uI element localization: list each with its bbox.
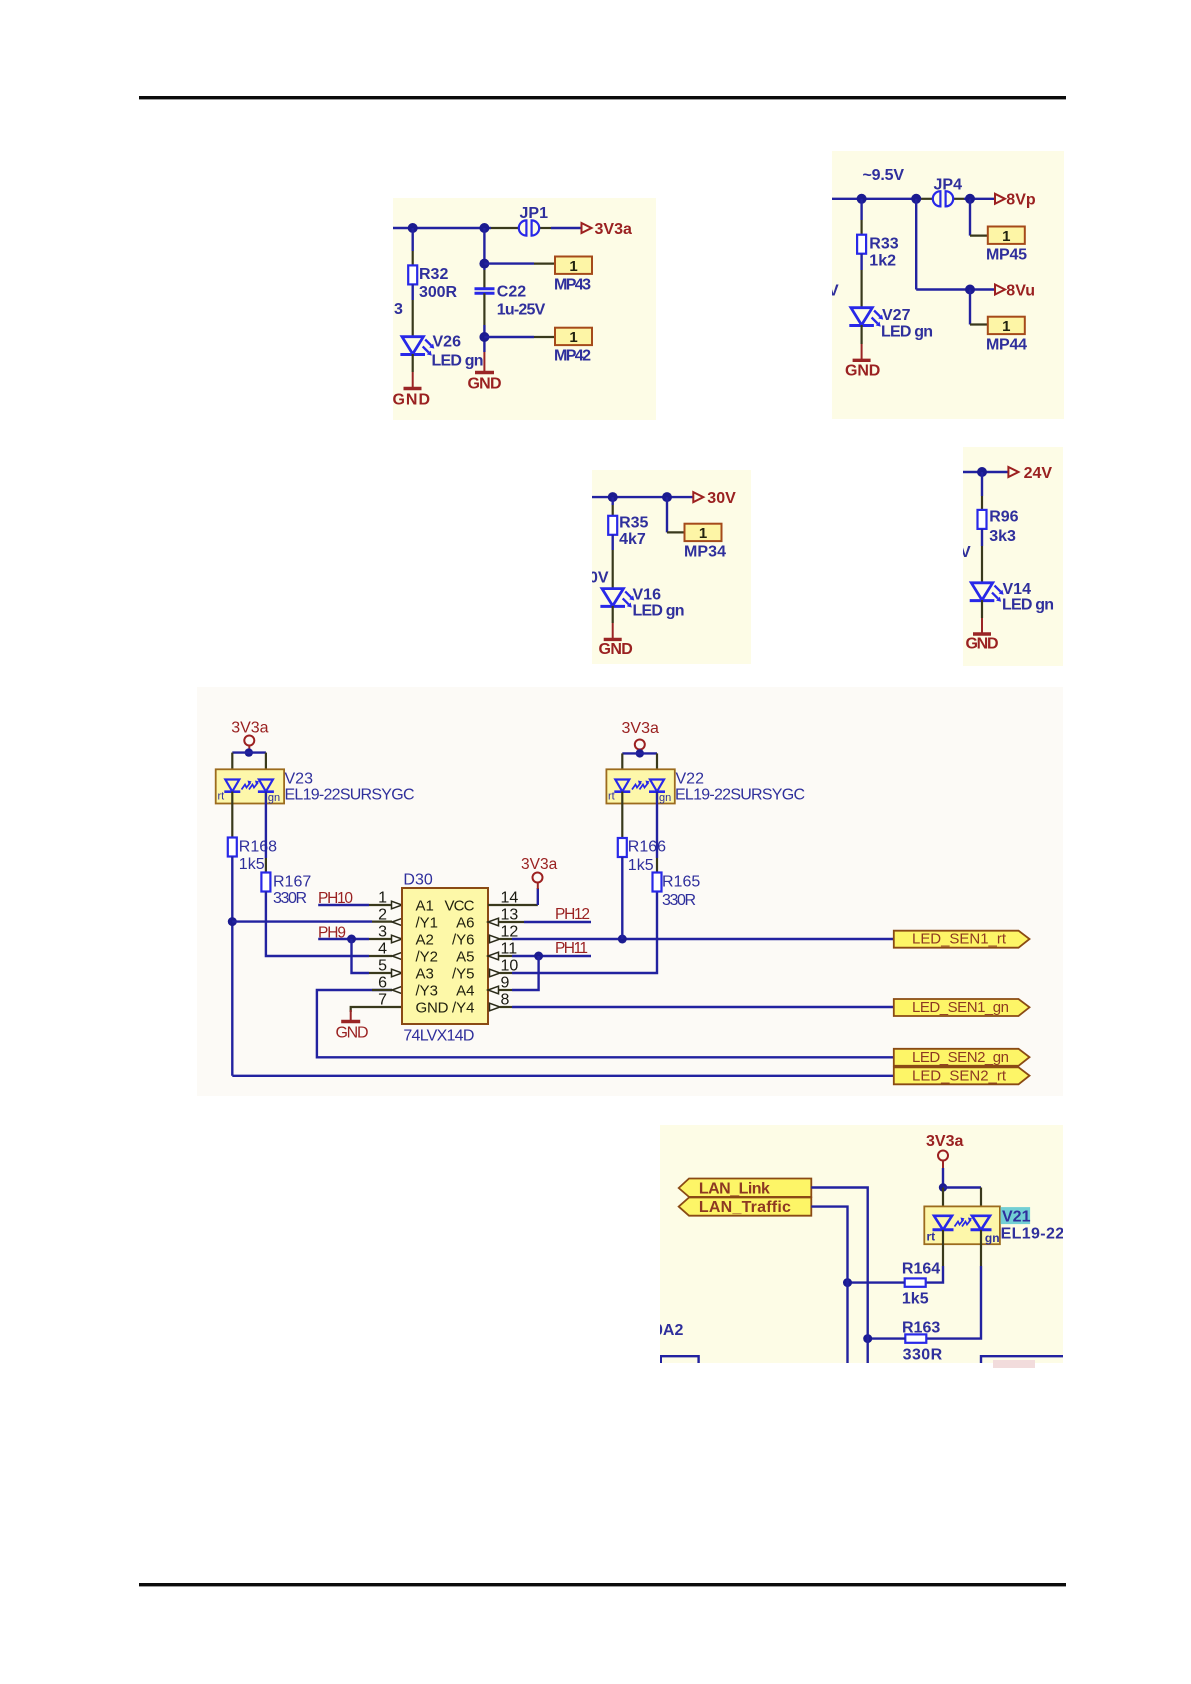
svg-text:PH12: PH12	[555, 906, 590, 923]
wire PH11 to A4	[512, 956, 539, 990]
pin stub MP44	[970, 323, 988, 325]
wire 8Vu horizontal	[916, 288, 994, 290]
svg-text:GND: GND	[336, 1025, 369, 1042]
pin stub A2	[369, 938, 391, 940]
pin arrow A5 input	[488, 952, 499, 960]
svg-text:3k3: 3k3	[989, 528, 1016, 545]
svg-text:/Y4: /Y4	[452, 1000, 475, 1017]
junction R35 top	[608, 492, 618, 502]
supply arrow 8Vp	[995, 194, 1005, 204]
pink artifact	[993, 1360, 1035, 1368]
svg-text:/Y2: /Y2	[416, 949, 439, 966]
pin stub JP4 right	[954, 198, 965, 200]
pin stub R35 top	[612, 505, 614, 516]
wire V21 gn cathode	[980, 1230, 982, 1266]
junction R33 top	[857, 194, 867, 204]
pin arrow /Y6 output	[490, 935, 501, 943]
capacitor C22	[475, 287, 495, 290]
resistor R33	[857, 235, 866, 254]
pin arrow A6 input	[488, 918, 499, 926]
wire V22 rt cathode	[621, 792, 623, 839]
svg-text:EL19-22SURSYGC: EL19-22SURSYGC	[675, 787, 805, 804]
wire R163 to LAN_Link line	[868, 1337, 906, 1339]
supply arrow 24V	[1008, 467, 1018, 477]
svg-text:R168: R168	[239, 839, 277, 856]
wire main net top (fragment A)	[393, 227, 491, 229]
svg-text:8Vp: 8Vp	[1006, 192, 1036, 209]
pin arrow /Y1 output	[392, 918, 403, 926]
svg-text:2: 2	[378, 907, 387, 924]
svg-text:R165: R165	[662, 874, 700, 891]
pin stub V14 cathode	[981, 600, 983, 618]
ground symbol V27	[853, 359, 871, 362]
svg-text:1k5: 1k5	[628, 857, 654, 874]
wire V23 gn cathode upper	[265, 792, 267, 859]
package V22 box	[606, 769, 674, 803]
svg-text:LED gn: LED gn	[432, 353, 484, 370]
svg-text:1k5: 1k5	[239, 856, 265, 873]
junction V22 supply	[636, 749, 644, 757]
supply arrow 3V3a	[582, 223, 592, 233]
pin arrow A1 input	[392, 901, 403, 909]
pin stub /Y2	[369, 955, 392, 957]
pin stub MP43	[534, 263, 555, 265]
junction V21 supply	[939, 1183, 947, 1191]
junction R166 net	[618, 935, 627, 944]
svg-text:~9.5V: ~9.5V	[863, 167, 905, 184]
wire power to junction	[942, 1168, 944, 1188]
pin stub /Y5	[500, 972, 512, 974]
supply arrow 8Vu	[995, 285, 1005, 295]
pin stub V27 anode	[860, 270, 862, 309]
svg-text:A5: A5	[456, 949, 474, 966]
svg-text:rt: rt	[608, 791, 615, 803]
svg-text:MP44: MP44	[986, 337, 1027, 354]
pin stub C22 bottom	[483, 293, 485, 325]
svg-text:30V: 30V	[707, 490, 736, 507]
net label box LAN_Link	[679, 1179, 812, 1197]
fragment E background	[197, 687, 1063, 1096]
svg-text:3: 3	[394, 301, 403, 318]
svg-text:V21: V21	[1002, 1209, 1031, 1226]
power circle 3V3a (V23)	[244, 736, 254, 746]
pin arrow /Y2 output	[392, 952, 403, 960]
pin arrow A3 input	[392, 969, 403, 977]
svg-text:GND: GND	[599, 641, 633, 658]
page top rule	[139, 96, 1066, 99]
wire junction to R96	[981, 472, 983, 496]
net label box LED_SEN1_gn	[894, 999, 1030, 1016]
junction at R32 top	[408, 223, 418, 233]
svg-text:5: 5	[378, 958, 387, 975]
svg-text:V16: V16	[633, 587, 662, 604]
pin stub V14 anode	[981, 546, 983, 584]
wire /Y4 to LED_SEN1_gn	[512, 1006, 894, 1008]
svg-text:LAN_Link: LAN_Link	[699, 1180, 770, 1197]
package V21 box	[924, 1206, 1000, 1244]
pin stub V16 cathode	[612, 606, 614, 623]
svg-text:R35: R35	[619, 515, 648, 532]
svg-text:LED gn: LED gn	[633, 603, 685, 620]
wire PH9	[318, 938, 369, 940]
wire C22 branch upper	[483, 228, 485, 270]
wire main net (fragment D)	[963, 471, 1008, 473]
wire VCC to 3V3a	[537, 888, 539, 905]
pin stub V26 cathode	[412, 354, 414, 372]
svg-text:GND: GND	[966, 636, 999, 653]
ground symbol V16	[604, 638, 622, 641]
svg-text:R166: R166	[628, 839, 666, 856]
ground symbol V14	[973, 632, 991, 635]
fragment F background	[660, 1125, 1063, 1363]
pin stub JP1 right	[540, 227, 552, 229]
testpoint MP43 pin 1	[555, 257, 592, 275]
fragment D background	[963, 447, 1063, 666]
junction C22/MP42	[479, 332, 489, 342]
emission icon V21	[955, 1218, 973, 1227]
svg-text:0A2: 0A2	[654, 1322, 683, 1339]
pin stub /Y1	[372, 920, 392, 922]
wire rt cathode to R164	[926, 1266, 943, 1283]
junction 8Vu branch	[911, 194, 921, 204]
power circle 3V3a (VCC)	[533, 873, 543, 883]
svg-text:LED gn: LED gn	[1002, 597, 1054, 614]
svg-text:3: 3	[378, 924, 387, 941]
svg-text:V: V	[960, 544, 971, 561]
svg-text:EL19-22SURSYGC: EL19-22SURSYGC	[285, 787, 415, 804]
svg-text:7: 7	[378, 992, 387, 1009]
pin stub A1	[369, 904, 391, 906]
ground wire C22	[483, 352, 485, 373]
highlight box V21	[1001, 1207, 1031, 1224]
power circle 3V3a (V22)	[635, 740, 645, 750]
wire PH10	[318, 904, 369, 906]
wire PH12	[524, 921, 591, 923]
svg-text:V14: V14	[1003, 581, 1032, 598]
wire PH9 to A3	[352, 939, 370, 973]
svg-text:MP42: MP42	[554, 348, 591, 365]
pin stub A4	[499, 989, 512, 991]
svg-text:A4: A4	[456, 983, 474, 1000]
ground symbol D30	[341, 1020, 360, 1023]
pin arrow /Y5 output	[490, 969, 501, 977]
resistor R96	[978, 510, 987, 529]
diode V27 LED	[849, 308, 883, 327]
testpoint MP44 pin 1	[988, 317, 1025, 335]
svg-text:A3: A3	[416, 966, 434, 983]
pin stub A6	[499, 921, 524, 923]
pin stub V27 cathode	[860, 325, 862, 344]
svg-text:3V3a: 3V3a	[926, 1133, 963, 1150]
emission icon V22	[632, 781, 650, 790]
svg-text:R164: R164	[902, 1261, 940, 1278]
jumper JP4	[933, 191, 953, 206]
testpoint MP45 pin 1	[988, 227, 1025, 245]
pin stub V16 anode	[612, 550, 614, 589]
wire V23 anode tie	[232, 751, 266, 753]
fragment A background	[393, 198, 656, 420]
pin stub R33 top	[860, 220, 862, 235]
svg-text:rt: rt	[927, 1230, 936, 1244]
wire LAN_Link net	[811, 1188, 867, 1364]
svg-text:3V3a: 3V3a	[622, 720, 659, 737]
resistor R168	[228, 838, 237, 857]
pin stub R96 top	[981, 496, 983, 510]
wire /Y6 to LED_SEN1_rt	[512, 938, 894, 940]
svg-text:gn: gn	[659, 792, 671, 804]
ground wire V16	[612, 623, 614, 639]
testpoint MP42 pin 1	[555, 328, 592, 346]
ground wire V27	[861, 344, 863, 360]
svg-text:4k7: 4k7	[619, 531, 646, 548]
svg-text:LED_SEN2_rt: LED_SEN2_rt	[912, 1067, 1007, 1084]
svg-text:MP43: MP43	[554, 277, 591, 294]
junction R164 LAN_Traffic	[843, 1278, 852, 1287]
power circle 3V3a (V21)	[938, 1151, 948, 1161]
wire /Y5 to R165	[512, 892, 657, 974]
wire V23 rt cathode	[231, 792, 233, 838]
diode V21 rt	[933, 1216, 954, 1230]
svg-text:D30: D30	[403, 872, 432, 889]
svg-text:A6: A6	[456, 915, 474, 932]
pin stub /Y6	[500, 938, 512, 940]
junction MP44 branch	[965, 285, 975, 295]
svg-text:R163: R163	[902, 1320, 940, 1337]
wire MP44 vertical	[969, 290, 971, 325]
wire C22 to junction	[483, 325, 485, 352]
net label box LED_SEN1_rt	[894, 931, 1030, 948]
resistor R35	[608, 516, 617, 535]
partial component outline right	[981, 1356, 1063, 1363]
wire to 8Vp arrow	[964, 198, 995, 200]
wire R32 branch upper	[412, 228, 414, 251]
svg-text:GND: GND	[393, 392, 431, 409]
wire R166 to /Y6 net	[621, 857, 623, 939]
pin stub R165 top	[656, 858, 658, 873]
resistor R165	[653, 873, 662, 892]
wire V23 rt anode	[231, 753, 233, 779]
pin stub MP45	[970, 235, 988, 237]
svg-text:MP34: MP34	[684, 544, 726, 561]
wire R32 to V26	[412, 284, 414, 300]
junction V23 supply	[245, 748, 253, 756]
wire 8Vu vertical	[915, 199, 917, 290]
junction PH11	[534, 952, 543, 961]
wire R35 to V16	[612, 535, 614, 550]
svg-text:3V3a: 3V3a	[595, 221, 632, 238]
svg-text:GND: GND	[416, 1000, 449, 1017]
svg-text:/Y1: /Y1	[416, 915, 439, 932]
svg-text:LED_SEN2_gn: LED_SEN2_gn	[912, 1049, 1009, 1066]
pin stub JP1 left	[491, 227, 519, 229]
fragment B background	[832, 151, 1064, 419]
svg-text:1: 1	[378, 890, 387, 907]
resistor R167	[261, 873, 270, 892]
svg-text:330R: 330R	[662, 892, 696, 909]
junction R163 LAN_Link	[863, 1334, 872, 1343]
diode V22 rt	[614, 780, 630, 792]
junction at C22 top	[479, 223, 489, 233]
pin stub V26 anode	[412, 300, 414, 338]
svg-text:MP45: MP45	[986, 246, 1027, 263]
svg-text:A1: A1	[416, 898, 434, 915]
wire LAN_Traffic net	[811, 1207, 847, 1363]
wire V23 gn anode	[265, 753, 267, 779]
svg-text:rt: rt	[218, 791, 225, 803]
package V23 box	[216, 769, 284, 803]
wire gn cathode to R163	[926, 1266, 981, 1339]
pin stub VCC pin14	[488, 904, 538, 906]
pin stub C22 top	[483, 270, 485, 288]
wire V21 gn anode	[980, 1188, 982, 1217]
wire V21 rt cathode	[942, 1230, 944, 1266]
svg-text:/Y5: /Y5	[452, 966, 475, 983]
wire /Y1 output net	[232, 920, 372, 922]
svg-text:R33: R33	[869, 236, 898, 253]
svg-text:V27: V27	[882, 307, 911, 324]
svg-text:gn: gn	[268, 792, 280, 804]
svg-text:V26: V26	[433, 334, 462, 351]
pin stub /Y3	[372, 989, 392, 991]
pin stub R32 top	[412, 251, 414, 265]
junction R96 top	[977, 467, 987, 477]
diode V16 LED	[600, 589, 634, 608]
wire R96 to V14	[981, 529, 983, 546]
wire R164 to LAN_Traffic line	[848, 1281, 905, 1283]
svg-text:V: V	[828, 283, 839, 300]
partial component outline left	[661, 1356, 699, 1363]
svg-text:3V3a: 3V3a	[521, 856, 558, 873]
svg-text:4: 4	[378, 941, 387, 958]
junction MP34 branch	[662, 492, 672, 502]
svg-text:VCC: VCC	[445, 898, 475, 915]
jumper JP1	[519, 220, 539, 235]
svg-text:LAN_Traffic: LAN_Traffic	[699, 1199, 791, 1216]
pin arrow /Y4 output	[490, 1003, 501, 1011]
resistor R163	[905, 1334, 926, 1342]
diode V23 gn	[258, 780, 274, 792]
pin stub R167 top	[265, 858, 267, 873]
diode V23 rt	[224, 780, 240, 792]
wire MP34 vertical	[666, 497, 668, 532]
svg-text:A2: A2	[416, 932, 434, 949]
svg-text:24V: 24V	[1024, 465, 1053, 482]
pin stub JP4 left	[921, 198, 933, 200]
emission icon V23	[242, 781, 260, 790]
power stub (V21)	[942, 1161, 944, 1169]
pin arrow A2 input	[392, 935, 403, 943]
net label box LAN_Traffic	[679, 1198, 812, 1216]
svg-text:V23: V23	[285, 771, 314, 788]
pin stub A5	[499, 955, 512, 957]
resistor R164	[905, 1278, 926, 1286]
svg-text:EL19-22: EL19-22	[1001, 1226, 1065, 1243]
page bottom rule	[139, 1583, 1066, 1586]
wire main net (fragment B)	[832, 198, 921, 200]
wire V22 anode tie	[622, 752, 657, 754]
svg-text:1k2: 1k2	[869, 253, 896, 270]
power stub VCC	[537, 883, 539, 890]
ground wire V26	[412, 372, 414, 389]
wire main net (fragment C)	[592, 496, 693, 498]
wire to MP43	[484, 262, 534, 264]
diode V14 LED	[970, 583, 1004, 602]
svg-text:GND: GND	[468, 376, 502, 393]
wire V22 gn cathode upper	[656, 792, 658, 859]
svg-text:3V3a: 3V3a	[231, 720, 268, 737]
testpoint MP34 pin 1	[685, 524, 722, 542]
wire V22 gn anode	[656, 753, 658, 779]
pin stub A3	[369, 972, 391, 974]
pin stub MP34	[667, 531, 685, 533]
svg-text:8Vu: 8Vu	[1006, 282, 1035, 299]
svg-text:74LVX14D: 74LVX14D	[403, 1028, 474, 1045]
svg-text:R96: R96	[989, 509, 1018, 526]
resistor R32	[408, 265, 417, 284]
wire R167 to pin 4	[266, 892, 369, 957]
wire V22 rt anode	[621, 753, 623, 779]
power stub (V23)	[248, 746, 250, 753]
svg-text:JP4: JP4	[934, 177, 963, 194]
diode V22 gn	[649, 780, 665, 792]
wire V21 rt anode	[942, 1188, 944, 1217]
svg-text:gn: gn	[985, 1231, 1000, 1245]
svg-text:330R: 330R	[903, 1347, 943, 1364]
wire LED_SEN2_rt bus	[232, 1075, 894, 1077]
wire /Y3 to LED_SEN2_gn bus	[317, 990, 894, 1057]
pin stub GND pin7	[351, 1007, 402, 1012]
svg-text:0V: 0V	[589, 570, 609, 587]
svg-text:PH11: PH11	[555, 940, 588, 957]
svg-text:GND: GND	[845, 363, 880, 380]
svg-text:LED_SEN1_gn: LED_SEN1_gn	[912, 999, 1009, 1016]
diode V21 gn	[971, 1216, 992, 1230]
junction R168 /Y1	[228, 917, 237, 926]
svg-text:6: 6	[378, 975, 387, 992]
svg-text:R32: R32	[419, 266, 448, 283]
junction PH9	[347, 935, 356, 944]
svg-text:1u-25V: 1u-25V	[497, 301, 546, 318]
wire R33 upper	[860, 199, 862, 220]
ground wire pin7	[350, 1010, 352, 1022]
IC D30 box	[402, 888, 488, 1024]
wire R33 to V27	[860, 254, 862, 270]
ground symbol C22	[475, 371, 494, 374]
pin stub /Y4	[500, 1006, 512, 1008]
pin arrow A4 input	[488, 986, 499, 994]
ground symbol V26	[404, 387, 422, 390]
junction MP45 branch	[965, 194, 975, 204]
power stub (V22)	[639, 750, 641, 754]
wire to 3V3a arrow	[551, 227, 581, 229]
wire PH11	[512, 955, 591, 957]
wire MP45 branch vertical	[969, 199, 971, 236]
wire R168 to junction	[231, 857, 233, 1076]
net label box LED_SEN2_gn	[894, 1049, 1030, 1066]
wire V21 anode tie	[943, 1186, 981, 1188]
wire junction to R35	[612, 497, 614, 505]
svg-text:JP1: JP1	[520, 205, 549, 222]
svg-text:V22: V22	[676, 771, 705, 788]
ground wire V14	[981, 618, 983, 634]
svg-text:R167: R167	[273, 874, 311, 891]
svg-text:300R: 300R	[419, 284, 457, 301]
net label box LED_SEN2_rt	[894, 1067, 1030, 1084]
svg-text:/Y6: /Y6	[452, 932, 475, 949]
fragment C background	[592, 470, 751, 664]
pin arrow /Y3 output	[392, 986, 403, 994]
resistor R166	[618, 838, 627, 857]
